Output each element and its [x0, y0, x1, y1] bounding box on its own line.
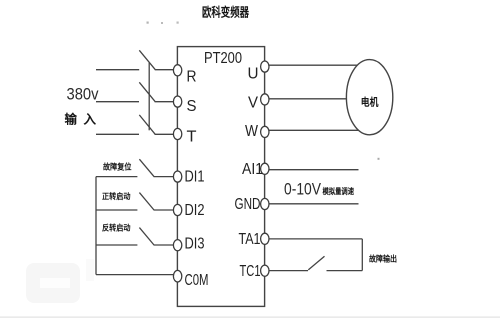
- terminal DI3 circle: [173, 240, 181, 251]
- wire TA1 horizontal: [270, 238, 363, 240]
- wire U to motor: [269, 64, 369, 66]
- wire V to motor: [269, 98, 369, 100]
- svg-text:欧科变频器: 欧科变频器: [202, 4, 249, 19]
- svg-text:电机: 电机: [361, 95, 379, 108]
- switch linkage bar: [148, 63, 150, 131]
- svg-text:输: 输: [65, 112, 78, 127]
- svg-text:反转启动: 反转启动: [102, 223, 131, 233]
- terminal DI1 circle: [173, 171, 181, 182]
- switch blade T phase: [139, 115, 155, 134]
- svg-text:W: W: [245, 123, 259, 140]
- wire DI3 input: [96, 244, 137, 246]
- svg-text:PT200: PT200: [204, 50, 242, 67]
- svg-text:V: V: [248, 94, 258, 111]
- svg-text:DI1: DI1: [185, 169, 205, 186]
- svg-text:故障输出: 故障输出: [369, 253, 397, 263]
- wire TC1 left segment: [270, 270, 309, 272]
- wire R to terminal: [155, 69, 174, 71]
- terminal DI2 circle: [173, 204, 181, 215]
- wire DI3 to terminal: [154, 244, 174, 246]
- motor M1 电机: [346, 60, 392, 135]
- terminal R circle: [173, 65, 181, 76]
- faint dot 2: [161, 22, 163, 24]
- terminal GND circle: [261, 198, 269, 209]
- svg-text:U: U: [248, 65, 259, 82]
- terminal U circle: [261, 61, 269, 72]
- wire W to motor: [269, 129, 369, 131]
- svg-text:入: 入: [84, 113, 97, 127]
- svg-text:正转启动: 正转启动: [102, 191, 131, 201]
- switch blade DI1 (fault reset): [139, 159, 154, 176]
- svg-text:S: S: [187, 98, 197, 115]
- svg-text:T: T: [187, 128, 197, 145]
- switch blade R phase: [139, 50, 155, 69]
- wire GND: [269, 203, 359, 205]
- svg-text:GND: GND: [235, 196, 261, 213]
- terminal V circle: [261, 94, 269, 105]
- switch blade DI3 (reverse start): [139, 228, 154, 245]
- wire AI1: [269, 169, 359, 171]
- svg-text:C0M: C0M: [185, 272, 209, 289]
- svg-text:R: R: [187, 68, 197, 85]
- switch blade DI2 (forward start): [139, 193, 154, 210]
- switch blade fault output: [308, 256, 324, 270]
- watermark blob bottom-left: [26, 263, 80, 303]
- wire T to terminal: [155, 133, 174, 135]
- wire DI2 input: [96, 209, 137, 211]
- terminal COM circle: [173, 270, 181, 282]
- wire TA1 vertical drop: [361, 239, 363, 271]
- terminal W circle: [261, 126, 269, 137]
- faint dot 1: [147, 22, 149, 24]
- wire DI1 input: [96, 176, 137, 178]
- node bus vertical (DI common): [95, 177, 97, 275]
- wire S to terminal: [155, 101, 174, 103]
- svg-text:TA1: TA1: [239, 231, 261, 248]
- switch blade S phase: [139, 82, 155, 101]
- terminal S circle: [173, 96, 181, 107]
- svg-text:故障复位: 故障复位: [103, 162, 132, 172]
- wire S input: [96, 101, 139, 103]
- inverter box U1 PT200: [177, 47, 264, 307]
- svg-text:DI2: DI2: [185, 202, 205, 219]
- terminal AI1 circle: [261, 163, 269, 174]
- svg-text:AI1: AI1: [242, 161, 263, 178]
- svg-text:0-10V: 0-10V: [284, 180, 322, 199]
- terminal T circle: [173, 128, 181, 139]
- wire T input: [96, 133, 139, 135]
- wire COM: [96, 274, 173, 276]
- wire TC1 right segment: [327, 270, 363, 272]
- bottom faint line: [0, 317, 500, 318]
- wire DI2 to terminal: [154, 209, 174, 211]
- svg-text:380v: 380v: [67, 85, 99, 104]
- svg-text:TC1: TC1: [240, 263, 261, 280]
- svg-text:DI3: DI3: [185, 236, 205, 253]
- wire R input: [96, 69, 139, 71]
- faint dot 3: [177, 22, 179, 24]
- faint speck right of AI1 wire: [378, 158, 380, 160]
- svg-text:模拟量调速: 模拟量调速: [323, 186, 355, 196]
- wire DI1 to terminal: [154, 176, 174, 178]
- terminal TA1 circle: [261, 233, 269, 244]
- terminal TC1 circle: [261, 265, 269, 276]
